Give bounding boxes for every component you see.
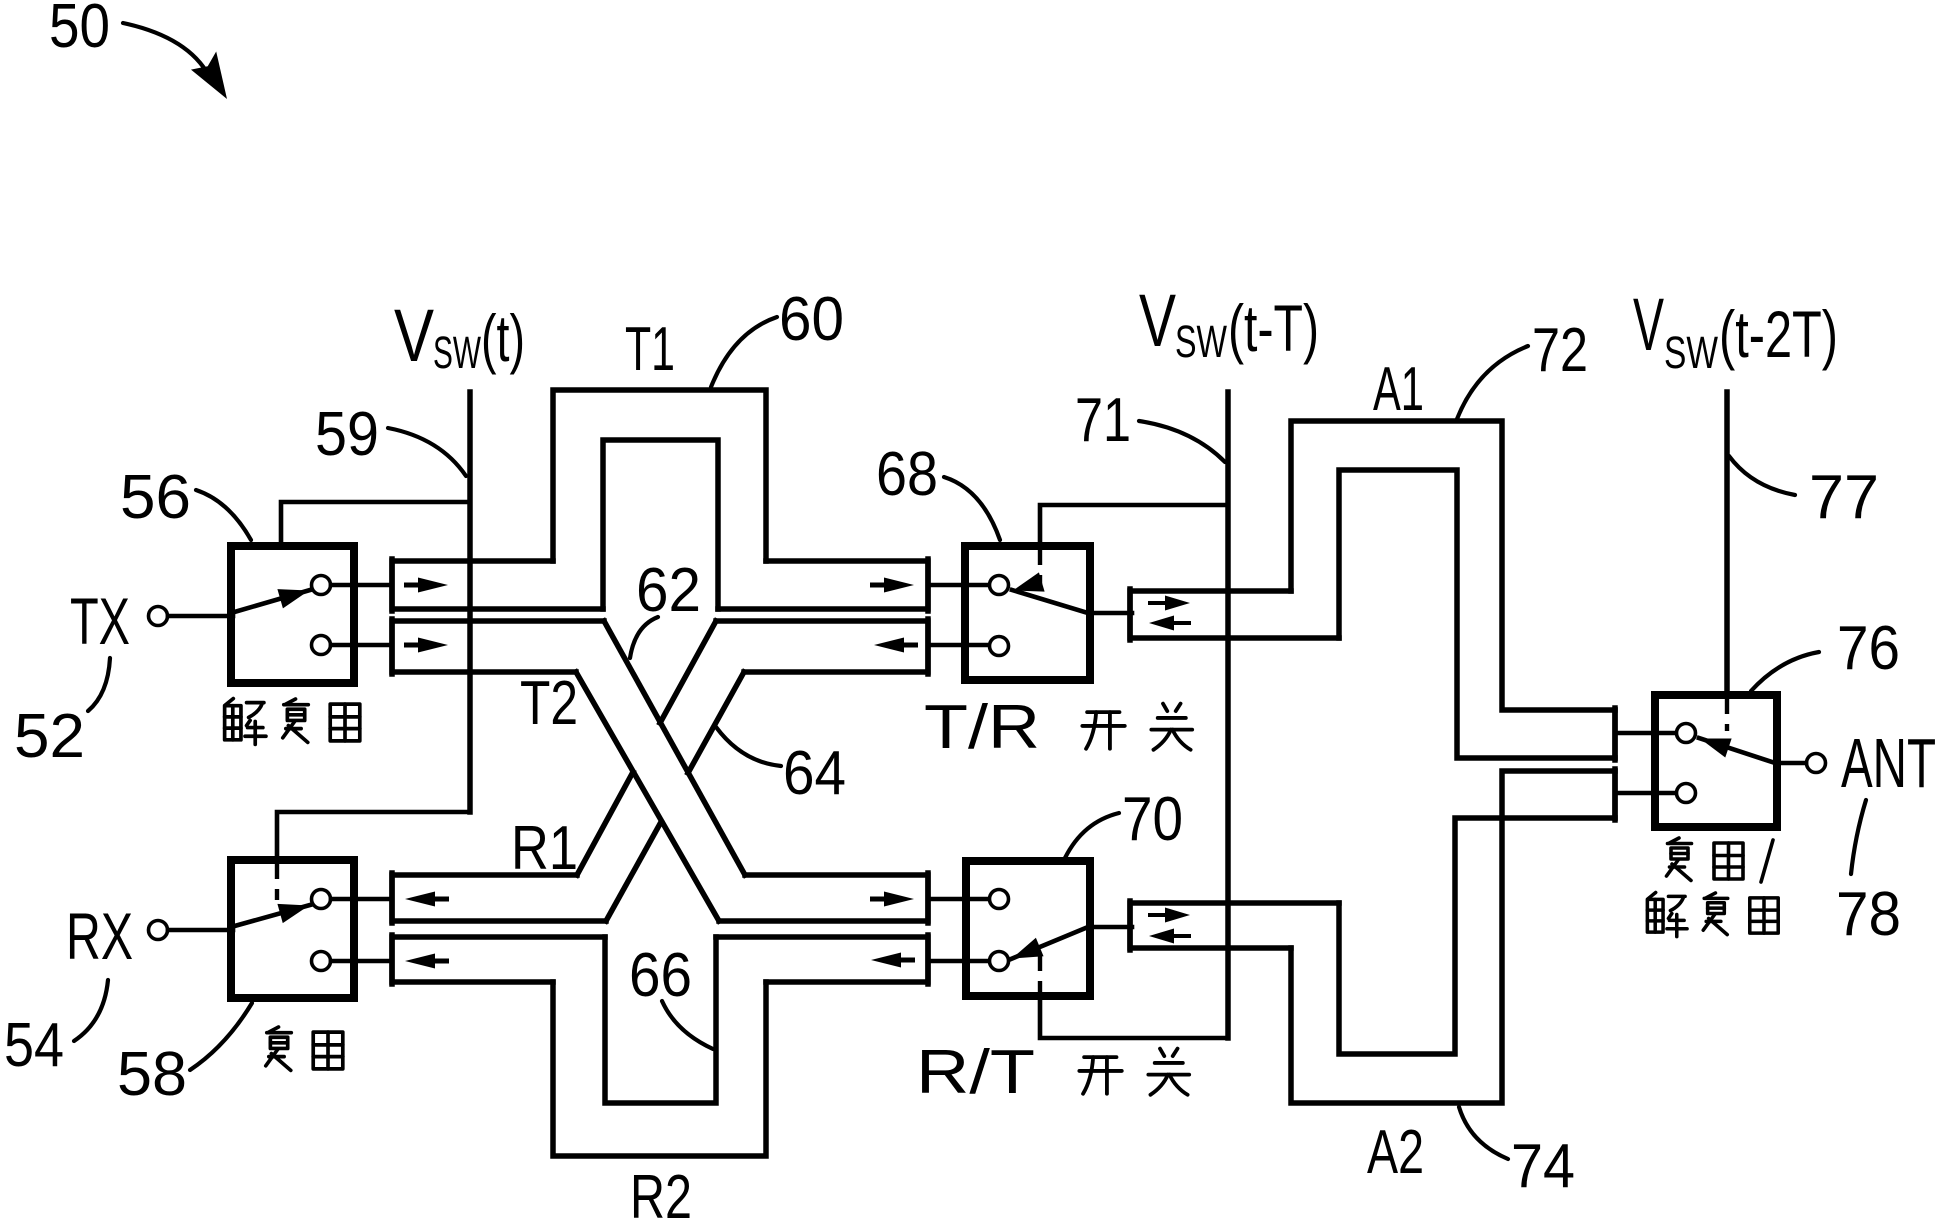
- wire R1 left opening: [392, 875, 606, 921]
- transmission line R1 lower wall segment b: [688, 672, 744, 773]
- wire muxdemux to ANT: [1777, 761, 1806, 766]
- leader 76: [1751, 652, 1819, 691]
- transmission line R1 upper wall segment a: [577, 772, 633, 875]
- muxdemux port circle 2: [1677, 784, 1696, 803]
- svg-text:76: 76: [1837, 614, 1900, 683]
- label 复用 (multiplex): [266, 1027, 292, 1070]
- multiplexer box 58 (复用): [231, 860, 354, 998]
- svg-text:50: 50: [49, 0, 110, 61]
- T/R switch box 68: [965, 546, 1090, 680]
- control wire from T/R switch to V_SW(t-T): [1040, 505, 1226, 545]
- antenna delay line A1 outer: [1291, 421, 1615, 710]
- antenna delay line A2 inner: [1339, 818, 1615, 1054]
- svg-text:68: 68: [876, 440, 938, 509]
- transmission line R1 lower wall segment a: [606, 822, 661, 921]
- port TX terminal circle: [149, 607, 168, 626]
- leader 59: [388, 428, 466, 476]
- svg-text:54: 54: [4, 1011, 64, 1080]
- leader 77: [1729, 456, 1795, 495]
- switch arm in demux: [231, 590, 310, 613]
- switch arm in T/R box: [1012, 590, 1088, 613]
- demux output port circle 1: [312, 576, 331, 595]
- control wire from R/T switch to V_SW(t-T): [1040, 997, 1228, 1038]
- svg-text:60: 60: [779, 285, 844, 354]
- T/R port circle 1: [990, 576, 1009, 595]
- R/T port circle 2: [990, 952, 1009, 971]
- R/T port circle 1: [990, 890, 1009, 909]
- svg-text:56: 56: [120, 463, 191, 532]
- leader arrow for 50: [123, 23, 209, 76]
- svg-text:78: 78: [1836, 880, 1901, 949]
- label 复用/解复用 (mux/demux): [1667, 838, 1692, 881]
- svg-text:77: 77: [1809, 463, 1879, 532]
- svg-text:A2: A2: [1367, 1118, 1424, 1187]
- mux input port circle 2: [312, 952, 331, 971]
- leader 52: [88, 658, 110, 711]
- svg-text:R1: R1: [511, 814, 578, 883]
- transmission line T2 lower wall: [576, 672, 719, 921]
- svg-text:71: 71: [1075, 386, 1131, 455]
- dashed control inside R/T box: [1038, 956, 1042, 994]
- leader 70: [1065, 813, 1119, 858]
- T/R port circle 2: [990, 637, 1009, 656]
- svg-text:T/R: T/R: [924, 693, 1040, 762]
- transmission line T2 upper wall: [604, 621, 745, 875]
- svg-text:V: V: [1139, 279, 1176, 362]
- control wire from demux to V_SW(t) line: [281, 502, 468, 545]
- switch arm in mux: [231, 905, 310, 927]
- A1 port tube end cap: [1612, 710, 1618, 758]
- transmission line R1 upper wall segment b: [660, 621, 716, 723]
- svg-text:74: 74: [1511, 1132, 1575, 1201]
- wire T2 right opening: [719, 875, 928, 921]
- wire TX to demux: [168, 614, 233, 619]
- wire T/R common to A1 tube: [1090, 611, 1132, 616]
- wire mux port1 to line R1: [331, 897, 392, 902]
- svg-text:T1: T1: [625, 315, 675, 384]
- wire T2 tube to R/T port1: [928, 897, 989, 902]
- wire mux port2 to line R2: [331, 959, 392, 964]
- transmission line R2 outer: [553, 982, 766, 1156]
- leader 66: [662, 1001, 713, 1049]
- svg-text:RX: RX: [66, 899, 133, 973]
- wire T1 left opening: [392, 561, 603, 609]
- dashed control inside T/R box: [1038, 550, 1042, 592]
- svg-text:(t): (t): [481, 301, 525, 375]
- wire R1 tube to T/R port2: [928, 643, 989, 648]
- svg-text:ANT: ANT: [1841, 724, 1936, 802]
- V_SW(t-2T) control line 77: [1724, 392, 1730, 694]
- svg-text:52: 52: [14, 702, 85, 771]
- wire R2 tube to R/T port2: [928, 959, 989, 964]
- svg-text:59: 59: [315, 400, 379, 469]
- svg-text:58: 58: [117, 1040, 187, 1109]
- dashed control inside mux box: [275, 864, 279, 900]
- svg-text:SW: SW: [433, 327, 481, 378]
- control wire from mux to V_SW(t) line: [277, 812, 470, 859]
- leader 74: [1459, 1107, 1508, 1159]
- wire T2 left opening: [392, 621, 604, 672]
- svg-text:SW: SW: [1664, 327, 1718, 378]
- wire bidirectional tube to A1: [1130, 591, 1339, 638]
- port RX terminal circle: [149, 921, 168, 940]
- antenna delay line A1 inner: [1339, 470, 1615, 758]
- svg-text:72: 72: [1532, 316, 1588, 385]
- svg-text:(t-T): (t-T): [1228, 291, 1319, 365]
- wire A1 tube to muxdemux port1: [1617, 731, 1676, 736]
- mux input port circle 1: [312, 890, 331, 909]
- wire R2 left opening: [392, 937, 605, 982]
- transmission line T1 outer: [553, 390, 766, 561]
- wire R2 right opening: [716, 937, 928, 982]
- wire demux port1 to line T1: [331, 583, 392, 588]
- svg-text:TX: TX: [70, 584, 130, 658]
- leader 64: [716, 727, 781, 766]
- svg-text:R2: R2: [630, 1163, 692, 1219]
- mux/demux box 76 (复用/解复用): [1655, 695, 1777, 827]
- antenna delay line A2 outer: [1291, 771, 1615, 1103]
- leader 71: [1139, 421, 1225, 462]
- switch arm in muxdemux box: [1699, 738, 1775, 763]
- leader 56: [196, 490, 251, 540]
- svg-text:A1: A1: [1373, 355, 1424, 424]
- wire A2 tube to muxdemux port2: [1617, 791, 1676, 796]
- svg-text:(t-2T): (t-2T): [1719, 297, 1838, 371]
- wire T1 right opening: [718, 561, 928, 609]
- wire bidirectional tube to A2: [1130, 903, 1339, 948]
- leader 58: [190, 1003, 252, 1070]
- demux output port circle 2: [312, 636, 331, 655]
- R/T switch box 70: [966, 861, 1090, 996]
- switch arm in R/T box: [1011, 927, 1088, 959]
- tube end caps (thicker): [389, 559, 395, 611]
- wire R/T common to A2 tube: [1090, 925, 1132, 930]
- label 解复用 (demultiplex): [225, 699, 266, 745]
- svg-text:64: 64: [783, 739, 846, 808]
- wire demux port2 to line T2: [331, 643, 392, 648]
- wire RX to mux: [168, 928, 233, 933]
- demultiplexer box 56 (解复用): [231, 546, 354, 683]
- svg-text:R/T: R/T: [916, 1038, 1035, 1107]
- transmission line T1 inner: [603, 440, 718, 609]
- svg-text:T2: T2: [520, 669, 578, 738]
- leader 62: [630, 617, 658, 658]
- svg-text:62: 62: [636, 556, 701, 625]
- A2 port tube end cap: [1612, 771, 1618, 818]
- dashed control inside muxdemux box: [1725, 699, 1729, 731]
- control line 59 V_SW(t) vertical: [467, 392, 473, 812]
- svg-text:SW: SW: [1175, 316, 1227, 367]
- leader 72: [1457, 346, 1528, 419]
- svg-text:V: V: [1633, 283, 1664, 366]
- svg-text:70: 70: [1122, 785, 1183, 854]
- svg-text:V: V: [394, 294, 435, 377]
- leader 60: [711, 317, 777, 387]
- leader 68: [944, 477, 1000, 540]
- leader 54: [74, 980, 108, 1041]
- muxdemux port circle 1: [1677, 724, 1696, 743]
- control line 71 V_SW(t-T) vertical: [1225, 392, 1231, 1038]
- wire R1 right opening: [716, 621, 928, 672]
- transmission line R2 inner: [605, 937, 716, 1103]
- wire T1 tube to T/R port1: [928, 583, 989, 588]
- leader 78: [1851, 800, 1866, 874]
- ANT terminal circle: [1807, 754, 1826, 773]
